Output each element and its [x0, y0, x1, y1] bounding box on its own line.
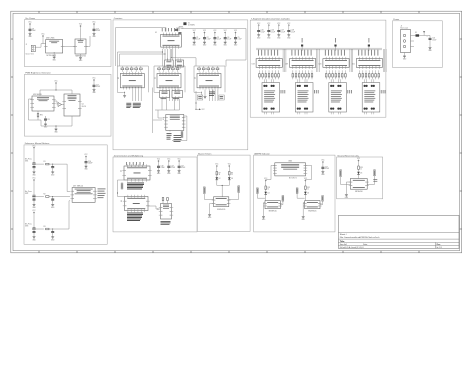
gate IC U7 74HC08: [161, 204, 172, 220]
wire U16 out to D1: [63, 45, 75, 47]
svg-text:C26: C26: [271, 30, 274, 32]
net labels above U20: [324, 49, 327, 55]
boxed net label under U4 right: [219, 95, 224, 100]
display DS3 7-segment: [329, 83, 347, 112]
svg-text:U19: U19: [285, 64, 288, 66]
svg-text:Size: A4: Size: A4: [340, 243, 347, 246]
junction dots on counter buses: [162, 52, 163, 53]
wire horizontal mid counters: [171, 57, 196, 59]
svg-text:SW1: SW1: [25, 161, 28, 163]
svg-text:10uF: 10uF: [32, 30, 36, 32]
net labels under U10: [167, 132, 172, 135]
resistor row above U4: [198, 68, 201, 70]
wire right cluster to VCC tap: [195, 58, 197, 66]
svg-text:Q1: Q1: [82, 104, 84, 106]
wire right label to U11: [282, 201, 284, 205]
svg-text:U20: U20: [318, 64, 321, 66]
wires below U3: [169, 90, 171, 102]
wire button 1 to U17: [53, 163, 67, 165]
svg-text:Title:: Title:: [340, 240, 345, 243]
connector J1 screw terminal: [31, 45, 35, 51]
svg-text:KiCad E.D.A. kicad (5.1.5)-3: KiCad E.D.A. kicad (5.1.5)-3: [340, 246, 364, 249]
net labels right of DS2: [313, 90, 316, 93]
svg-text:C4: C4: [227, 37, 229, 39]
svg-text:SN74HC05: SN74HC05: [308, 211, 316, 213]
potentiometer RV1: [37, 114, 39, 117]
svg-text:0.1uF: 0.1uF: [217, 39, 221, 41]
wire J1 to U16 input: [35, 46, 41, 48]
svg-text:Power: Power: [393, 18, 399, 21]
svg-text:MC74HC74: MC74HC74: [289, 178, 297, 180]
wire button 2 to U17: [53, 196, 70, 198]
svg-text:U1: U1: [155, 32, 157, 34]
decoder IC U21 74HC4511: [356, 59, 382, 68]
wire junction down to U8: [221, 185, 223, 196]
net label block under U7: [161, 220, 171, 223]
wire bus U1 to left counter: [118, 51, 163, 53]
net label left of U13: [340, 170, 342, 177]
svg-text:C2: C2: [207, 37, 209, 39]
capacitor C17 crystal load: [175, 29, 178, 31]
gate U12B: [172, 91, 183, 98]
svg-text:File: /home/user/kicad/CMOS-Cl: File: /home/user/kicad/CMOS-Clock-v4.sch: [340, 236, 381, 239]
gate U12A: [160, 91, 170, 98]
svg-text:SN74HC00: SN74HC00: [355, 191, 363, 193]
svg-text:U4: U4: [195, 77, 197, 79]
gate U14A above minutes cluster: [165, 60, 174, 67]
svg-text:U16 L7805: U16 L7805: [46, 38, 54, 40]
title block divider lines: [338, 232, 459, 234]
svg-text:AM/PM Indicator: AM/PM Indicator: [254, 152, 270, 155]
section box: Second Reset Circuitry: [337, 157, 383, 199]
svg-text:0.1uF: 0.1uF: [96, 86, 100, 88]
svg-text:C26: C26: [432, 38, 435, 40]
ground under C26: [429, 39, 431, 46]
wire right label to U13: [374, 176, 376, 185]
svg-text:Id: 1/1: Id: 1/1: [437, 247, 442, 249]
driver IC U11 74HC05: [265, 201, 280, 209]
resistor row above U3: [158, 68, 161, 70]
svg-text:R12: R12: [307, 187, 310, 189]
svg-text:D4: D4: [268, 193, 270, 195]
svg-text:X1: X1: [188, 23, 190, 25]
section box: Power: [393, 21, 443, 68]
ground buzzer stage: [210, 203, 214, 205]
counter IC U10 74HC390 second stage: [166, 115, 184, 131]
svg-text:MBR0520LT1G: MBR0520LT1G: [76, 56, 87, 58]
section box: PWM Brightness Generator: [24, 74, 111, 136]
resistor row under U20: [325, 74, 327, 77]
section box: 7-Segment Decoders (Common Cathode): [250, 20, 386, 117]
wire D5 to driver U12: [304, 195, 306, 201]
ground under U11: [264, 202, 266, 204]
ground under C14: [33, 203, 35, 204]
ground under C16: [52, 171, 54, 172]
wire right vertical feed: [181, 28, 246, 30]
section box: Counters: [113, 20, 248, 150]
net label right of U13: [374, 170, 376, 176]
regulator U16 LM7805: [46, 40, 63, 53]
wiring above U20: [334, 38, 337, 43]
svg-text:C20: C20: [171, 165, 174, 167]
wire LEDs merge junction: [216, 180, 218, 186]
wire U10 to box bottom: [184, 115, 187, 117]
ground under C13: [33, 171, 35, 172]
capacitor C18 at SW3 output: [52, 229, 53, 230]
wire loop around U3: [154, 65, 185, 67]
svg-text:R8: R8: [231, 172, 233, 174]
ground under D1: [80, 54, 82, 57]
svg-text:D2: D2: [219, 178, 221, 180]
display DS2 7-segment: [295, 83, 313, 112]
wires right of U18: [282, 49, 284, 72]
svg-text:0.1uF: 0.1uF: [281, 31, 285, 33]
ground under U2: [124, 92, 125, 93]
svg-text:Vcc Power: Vcc Power: [25, 17, 35, 20]
wires below U2: [132, 90, 134, 102]
ground under jack: [404, 53, 406, 56]
net label left of U8: [203, 187, 205, 194]
ground under U12: [303, 202, 305, 204]
svg-text:U18: U18: [252, 64, 255, 66]
schmitt trigger U17 74HC14: [72, 188, 95, 203]
barrel jack J2: [401, 30, 411, 53]
resistor R1 series: [36, 163, 44, 165]
wire U9 right to stack 2: [306, 164, 312, 166]
section box: AM/PM Indicator: [254, 155, 335, 232]
svg-text:Zero Detection and Multiplexin: Zero Detection and Multiplexing: [114, 154, 144, 157]
svg-text:Debounce Manual Buttons: Debounce Manual Buttons: [25, 142, 50, 145]
svg-text:R7: R7: [219, 172, 221, 174]
svg-text:0.1uF: 0.1uF: [196, 39, 200, 41]
VCC tap right of U10: [196, 108, 199, 110]
svg-text:C22: C22: [325, 166, 328, 168]
svg-text:C10: C10: [96, 28, 99, 30]
display DS1 7-segment: [262, 83, 280, 112]
labels under gates: [161, 97, 167, 100]
wiring above U21: [368, 38, 371, 43]
net label block under U2 right: [133, 102, 141, 105]
svg-text:C1: C1: [196, 37, 198, 39]
wire U15 output to Q1 gate: [54, 100, 57, 102]
net label right of U12: [322, 196, 324, 202]
wire left label to U13: [340, 177, 342, 185]
wires right of U21: [382, 49, 384, 72]
svg-text:C9: C9: [32, 28, 34, 30]
svg-text:J1: J1: [26, 44, 28, 46]
svg-text:U10: U10: [163, 117, 165, 120]
ground under U10: [169, 130, 171, 131]
wire VCC rail horizontal: [40, 89, 72, 91]
svg-text:0.1uF: 0.1uF: [271, 31, 275, 33]
wire bus from U1 down-left: [161, 49, 163, 67]
counter IC U2 74HC390: [120, 74, 144, 88]
net labels above U21: [357, 49, 360, 55]
sheet outer border: [11, 11, 462, 253]
section box: Debounce Manual Buttons: [24, 145, 107, 244]
counter IC U4 74HC390: [197, 74, 221, 88]
logic IC U6 74HC688 low digits: [125, 197, 149, 211]
gate U14B above minutes cluster: [175, 60, 183, 67]
oscillator IC U1 CD4060: [161, 34, 182, 47]
svg-text:Counters: Counters: [114, 17, 122, 20]
svg-text:U21: U21: [352, 64, 355, 66]
net labels above U1: [161, 28, 164, 31]
svg-text:D6: D6: [360, 173, 362, 175]
svg-text:R2: R2: [44, 193, 46, 195]
counter IC U3 74HC390: [157, 74, 181, 88]
svg-text:J2: J2: [401, 25, 403, 27]
capacitor C15 under button SW3: [33, 230, 35, 232]
vertical net label left of U5 text block: [121, 183, 123, 189]
svg-text:D5: D5: [415, 32, 417, 34]
net labels right of U17: [98, 188, 106, 191]
svg-text:C21: C21: [181, 165, 184, 167]
svg-text:U6: U6: [121, 200, 123, 202]
net label block right under U10: [174, 134, 182, 137]
display DS4 7-segment: [362, 83, 380, 112]
decoder IC U19 74HC4511: [290, 59, 316, 68]
capacitor C11: [44, 118, 47, 120]
timer U15 NE555: [32, 96, 54, 111]
grounds under U4: [204, 90, 206, 96]
net label right of U11: [282, 196, 284, 202]
boxed net label under U4 left: [198, 95, 203, 100]
driver IC U8 74HC05: [214, 197, 229, 207]
svg-text:Second Reset Circuitry: Second Reset Circuitry: [337, 154, 359, 157]
svg-text:+: +: [427, 36, 428, 38]
svg-text:U15 NE555: U15 NE555: [33, 94, 42, 96]
svg-text:SW3: SW3: [25, 225, 28, 227]
resistor row above U2: [121, 68, 124, 70]
svg-text:7-Segment Decoders (Common Cat: 7-Segment Decoders (Common Cathode): [251, 17, 290, 20]
wire U6 to U7: [148, 205, 156, 207]
logic IC U5 74HC688: [124, 166, 150, 180]
jack pins: [411, 35, 415, 37]
net label left of U12: [296, 188, 298, 194]
bus wires across 7seg clusters: [256, 47, 382, 49]
wires right of U20: [349, 49, 351, 72]
svg-text:0.1uF: 0.1uF: [171, 167, 175, 169]
vertical net label right of U10: [181, 132, 183, 138]
wire left feed to U10: [152, 88, 154, 134]
svg-text:C28: C28: [291, 30, 294, 32]
wire right label to U12: [322, 201, 324, 205]
svg-text:C19: C19: [161, 165, 164, 167]
capacitor C17 at SW2 output: [52, 196, 53, 197]
svg-text:R3: R3: [44, 226, 46, 228]
wire crystal to U1: [175, 28, 177, 31]
capacitor C18 crystal load: [179, 32, 182, 34]
svg-text:0.1uF: 0.1uF: [207, 39, 211, 41]
svg-text:0.1uF: 0.1uF: [238, 39, 242, 41]
resistor R3 series: [36, 228, 44, 230]
decoder IC U18 74HC4511: [256, 59, 282, 68]
wire left label to U12: [296, 193, 298, 198]
wire D1 to C10 net: [86, 45, 90, 47]
section box: Zero Detection and Multiplexing: [113, 157, 197, 232]
svg-text:0.1uF: 0.1uF: [96, 30, 100, 32]
ground under U4: [201, 92, 202, 93]
wire U1 top pin to left bus: [165, 28, 167, 32]
sheet border division ticks top/bottom: [38, 11, 40, 13]
ground reset stage: [346, 181, 350, 183]
gate IC U13 74HC00: [350, 179, 367, 190]
svg-text:U2: U2: [118, 77, 120, 79]
wire loop around U4: [194, 65, 225, 67]
capacitor C16 at SW1 output: [52, 164, 53, 165]
ground under C18: [52, 236, 54, 237]
svg-text:Rev:: Rev:: [437, 244, 441, 246]
svg-text:C12: C12: [96, 84, 99, 86]
svg-text:100uF: 100uF: [432, 39, 436, 41]
net labels right of DS4: [380, 90, 383, 93]
svg-text:Buzzer Timers: Buzzer Timers: [198, 152, 211, 155]
capacitor C26 bulk: [429, 37, 432, 39]
wire U9 left to stack 1: [271, 164, 275, 166]
resistor row under U21: [359, 74, 361, 77]
svg-text:C27: C27: [281, 30, 284, 32]
decoder IC U20 74HC4511: [323, 59, 349, 68]
svg-text:SN74HC05: SN74HC05: [217, 209, 225, 211]
svg-text:R15: R15: [360, 167, 363, 169]
discrete parts above U7: [162, 198, 164, 201]
driver IC U12 74HC05: [305, 201, 320, 209]
svg-text:32.768kHz: 32.768kHz: [188, 24, 195, 26]
net labels right of DS1: [280, 90, 283, 93]
net labels right of DS3: [346, 90, 349, 93]
wire right label to U8: [238, 192, 240, 199]
wire D6 to U13: [358, 174, 360, 178]
wires gates to U10: [161, 99, 163, 110]
svg-text:C3: C3: [217, 37, 219, 39]
ground bottom rail: [55, 126, 57, 128]
net label block under U2 left: [126, 102, 131, 105]
svg-text:C25: C25: [261, 30, 264, 32]
svg-text:D3: D3: [231, 178, 233, 180]
sheet inner border: [13, 13, 460, 250]
svg-text:R1: R1: [44, 161, 46, 163]
svg-text:0.1uF: 0.1uF: [261, 31, 265, 33]
svg-text:0.1uF: 0.1uF: [161, 167, 165, 169]
title block frame: [338, 215, 459, 248]
net labels above U18: [257, 49, 260, 55]
svg-text:R11: R11: [268, 187, 271, 189]
svg-text:100nF: 100nF: [88, 163, 93, 165]
net labels above U5: [125, 162, 128, 165]
wire left label to U11: [256, 193, 258, 198]
svg-text:SW2: SW2: [25, 193, 28, 195]
resistor row under U18: [259, 74, 261, 77]
wire D4 to driver U11: [265, 195, 267, 201]
svg-text:IRLZ44: IRLZ44: [82, 106, 87, 108]
svg-text:C5: C5: [238, 37, 240, 39]
wire button 3 to U17: [53, 228, 69, 230]
svg-text:Barrel_Jack: Barrel_Jack: [401, 27, 409, 29]
wire bottom rail: [41, 125, 72, 127]
wire feedback loop left of U15: [29, 98, 33, 100]
sheet border division ticks left/right: [11, 38, 13, 40]
svg-text:PWM Brightness Generator: PWM Brightness Generator: [25, 72, 51, 75]
net label left of U11: [257, 188, 259, 194]
svg-text:RV1: RV1: [40, 115, 43, 117]
ground under C11: [45, 123, 47, 124]
svg-text:U17 74HC14: U17 74HC14: [73, 186, 83, 188]
svg-text:U5: U5: [121, 170, 123, 172]
capacitor C14 under button SW2: [33, 197, 35, 199]
wires below U4: [209, 90, 211, 102]
ground under C17: [52, 203, 54, 204]
diode D5: [416, 34, 420, 36]
resistor row under U19: [292, 74, 294, 77]
svg-text:SN74HC05: SN74HC05: [269, 211, 277, 213]
net labels above U19: [291, 49, 294, 55]
flip-flop U9 74HC74: [275, 163, 306, 176]
wires right of U19: [316, 49, 318, 72]
wire diode to cap: [414, 35, 416, 37]
section box: Buzzer Timers: [197, 155, 250, 231]
svg-text:0.1uF: 0.1uF: [291, 31, 295, 33]
PWR_FLAG marker: [423, 31, 425, 33]
svg-text:Date:: Date:: [363, 243, 368, 246]
svg-text:D5: D5: [307, 193, 309, 195]
svg-text:0.1uF: 0.1uF: [325, 168, 329, 170]
wire left label to U8: [203, 194, 205, 200]
svg-text:0.1uF: 0.1uF: [181, 167, 185, 169]
crystal X1 32.768kHz: [183, 22, 186, 25]
ground under C15: [33, 236, 35, 237]
svg-text:C11: C11: [47, 119, 50, 121]
svg-text:U3: U3: [155, 77, 157, 79]
svg-text:Sheet: /: Sheet: /: [340, 233, 348, 236]
ground under U16: [53, 55, 55, 56]
wire U5 to U6: [117, 180, 119, 197]
svg-text:C16: C16: [88, 161, 91, 163]
svg-text:0.1uF: 0.1uF: [227, 39, 231, 41]
capacitor C13 under button SW1: [33, 165, 35, 167]
net label right of U8: [238, 186, 240, 193]
wiring above U19: [301, 38, 304, 43]
net label block under U6: [127, 212, 143, 215]
section box: Vcc Power: [24, 20, 111, 67]
inverter gate triangle: [58, 103, 62, 107]
diode block D1 MBR0520: [75, 39, 86, 54]
resistor R2 series: [36, 196, 44, 198]
wire loop around U2: [117, 65, 148, 67]
net label block under U5: [127, 182, 144, 185]
transistor driver block Q1: [64, 94, 80, 116]
ground under U3: [161, 92, 162, 93]
